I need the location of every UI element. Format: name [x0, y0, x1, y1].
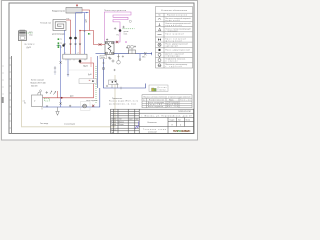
valve on left drop	[60, 102, 62, 104]
make-up connection	[54, 66, 56, 75]
svg-text:Разраб.: Разраб.	[111, 122, 117, 124]
svg-text:Насосы системы отопления и гор: Насосы системы отопления и горячего водо…	[144, 96, 191, 98]
sensor note icon	[152, 88, 154, 91]
title block	[111, 109, 194, 133]
cold water main (navy)	[114, 53, 152, 55]
boiler return (blue)	[67, 59, 69, 77]
svg-text:Т2: Т2	[60, 43, 62, 45]
svg-text:датчик температуры: датчик температуры	[52, 33, 66, 35]
svg-text:Н.контр.: Н.контр.	[111, 129, 117, 131]
legend row 4	[158, 34, 162, 36]
svg-text:Провер.: Провер.	[111, 124, 117, 126]
boiler supply (red)	[43, 59, 94, 98]
cold water riser (navy)	[97, 56, 99, 88]
riser: coil supply (red)	[66, 20, 71, 54]
drain valve	[56, 107, 59, 115]
pump schedule table	[142, 95, 192, 108]
riser tick marks	[84, 30, 86, 32]
pink stub	[90, 57, 92, 67]
node on boiler supply	[61, 97, 63, 99]
boiler control link (green dashed)	[45, 98, 50, 101]
riser: radiators return (blue)	[75, 13, 77, 55]
svg-text:340 кВт: 340 кВт	[31, 86, 38, 88]
gas meter box	[19, 30, 27, 41]
legend row 9	[158, 59, 161, 62]
svg-text:Ду40: Ду40	[88, 74, 92, 76]
tank volume label box	[100, 55, 107, 59]
legend row 5	[158, 38, 161, 41]
svg-text:Марка: Марка	[169, 99, 174, 101]
navy stub	[104, 56, 146, 88]
svg-text:3Ду50: 3Ду50	[83, 65, 88, 67]
safety arrows	[54, 92, 56, 95]
legend row 3	[159, 28, 161, 31]
svg-text:Ду25: Ду25	[27, 47, 31, 49]
svg-text:Ду40: Ду40	[85, 19, 87, 23]
svg-text:Насос ГВС: Насос ГВС	[148, 104, 163, 106]
manifold drain stubs	[66, 59, 85, 60]
svg-text:темп.: темп.	[29, 35, 34, 37]
pink fittings	[92, 105, 94, 107]
distribution manifold	[63, 54, 87, 59]
legend table	[156, 7, 193, 69]
instrument stems on cold main	[127, 46, 133, 54]
svg-text:Насос подпитки: Насос подпитки	[148, 106, 163, 108]
drawing frame	[9, 3, 194, 134]
pink drain dot	[125, 41, 127, 43]
sensor link from meter	[26, 32, 32, 34]
sheet background	[0, 0, 200, 141]
green sensor marks	[58, 38, 60, 48]
towel sensor (green dashed)	[123, 28, 135, 30]
DHW tank	[105, 42, 114, 55]
air collector	[66, 8, 82, 14]
svg-text:Узел ввода: Узел ввода	[40, 123, 48, 125]
svg-text:Датчик: Датчик	[158, 87, 167, 89]
supply pipe from collector (red)	[82, 10, 90, 31]
svg-text:Т: Т	[90, 34, 91, 36]
valve on tank feed	[99, 43, 102, 45]
svg-text:насос подпитки: насос подпитки	[86, 100, 98, 102]
return pipe at collector (blue)	[76, 12, 89, 14]
air vent stub	[76, 5, 78, 8]
svg-text:Лист: Лист	[119, 119, 122, 121]
svg-text:П-281025-ПМ: П-281025-ПМ	[178, 111, 191, 113]
svg-text:в канализацию: в канализацию	[64, 123, 76, 125]
svg-text:Манометр показывающ.: Манометр показывающ.	[166, 64, 189, 66]
sensor line (green dashed)	[95, 66, 97, 103]
svg-text:Насосы марки WILO, № по: Насосы марки WILO, № по	[109, 100, 138, 103]
svg-text:датчик: датчик	[124, 31, 129, 33]
fittings below cold main	[117, 54, 124, 64]
fittings near tank bottom	[109, 57, 115, 63]
svg-text:Воздухосборник: Воздухосборник	[52, 10, 65, 12]
towel valves	[114, 26, 125, 30]
tank feed (red)	[90, 31, 106, 45]
svg-text:TOP-S 40/10: TOP-S 40/10	[167, 102, 178, 104]
svg-text:в оправе: в оправе	[166, 61, 178, 63]
left margin ticks	[9, 58, 12, 128]
riser: coil return (blue)	[64, 30, 66, 54]
riser: supply branch (red)	[80, 31, 90, 55]
gas boiler	[32, 95, 43, 107]
svg-text:г. Москва, ул. Первомайская, д: г. Москва, ул. Первомайская, дом 19	[142, 114, 192, 117]
towel rail circuit (magenta)	[104, 12, 131, 42]
svg-text:расположению, см. план: расположению, см. план	[109, 103, 136, 105]
svg-text:датч.: датч.	[29, 31, 33, 33]
instrument on circulation line	[102, 67, 104, 69]
bottom return main (blue)	[43, 88, 100, 107]
svg-text:газ: газ	[23, 101, 25, 103]
paper edge	[2, 1, 198, 141]
svg-text:Стадия: Стадия	[170, 120, 175, 122]
svg-text:Подп: Подп	[135, 119, 138, 121]
sensor tick near riser	[88, 33, 90, 35]
legend row 6	[158, 43, 161, 46]
equipment strip box	[79, 79, 97, 84]
cold main end tick	[151, 52, 153, 55]
floor heating coil	[53, 20, 66, 31]
safety group	[46, 91, 52, 94]
svg-text:Наименование: Наименование	[167, 15, 187, 17]
legend row 2	[159, 23, 161, 25]
flue with siphon	[38, 92, 41, 95]
small fitting	[108, 56, 110, 58]
paper edge box	[1, 97, 3, 103]
riser: second return (blue)	[84, 13, 86, 55]
paper edge ladder	[1, 66, 4, 94]
boiler drain stub	[41, 107, 43, 110]
svg-text:Иванов: Иванов	[119, 122, 124, 124]
svg-text:Modulex EXT 440: Modulex EXT 440	[31, 83, 46, 85]
signature	[136, 121, 140, 129]
svg-text:Примечание:: Примечание:	[112, 98, 123, 100]
svg-text:Ду50: Ду50	[70, 95, 74, 97]
node junction	[79, 30, 81, 32]
fittings on cold main	[126, 46, 146, 56]
make-up pump	[81, 102, 91, 111]
svg-text:Тёплый пол: Тёплый пол	[40, 21, 51, 24]
faint link line	[69, 69, 90, 71]
pump P1	[69, 37, 72, 40]
flow arrow	[86, 12, 88, 13]
svg-text:№: №	[159, 14, 161, 17]
svg-text:Полотенцесушители: Полотенцесушители	[104, 10, 126, 12]
svg-text:с приводом: с приводом	[166, 30, 178, 32]
svg-text:Лист: Лист	[178, 120, 181, 122]
svg-text:Насос отопления: Насос отопления	[148, 102, 164, 104]
svg-text:ТЕПЛОСЕРВИС: ТЕПЛОСЕРВИС	[173, 129, 191, 133]
pump P2	[74, 37, 77, 40]
towel air vent	[129, 20, 131, 22]
pump on inlet	[62, 44, 64, 46]
tank inlet valve	[106, 39, 108, 41]
legend row 1	[158, 18, 161, 19]
water meter	[129, 50, 136, 54]
fittings on circulation line	[106, 83, 121, 89]
svg-text:№док: №док	[129, 119, 133, 121]
svg-text:Условные обозначения: Условные обозначения	[161, 10, 187, 12]
svg-text:Изм: Изм	[111, 119, 114, 121]
svg-text:4: 4	[180, 124, 181, 126]
legend row 8	[158, 53, 161, 56]
safety riser (red)	[57, 91, 59, 98]
svg-text:Котёл газовый: Котёл газовый	[31, 79, 44, 82]
svg-text:Т3: Т3	[60, 47, 62, 49]
DHW out (navy)	[96, 53, 106, 55]
svg-text:котельной: котельной	[148, 130, 157, 133]
towel pump	[119, 29, 122, 32]
svg-text:Котельная: Котельная	[148, 122, 157, 124]
manifold left inlet (blue)	[57, 46, 61, 108]
svg-text:темпер.: темпер.	[158, 89, 168, 91]
svg-text:1000л: 1000л	[101, 57, 106, 59]
svg-text:температуры: температуры	[166, 56, 181, 58]
svg-text:MHI 204: MHI 204	[167, 106, 178, 108]
legend row 10	[158, 64, 161, 67]
svg-text:Листов: Листов	[186, 120, 191, 122]
pump P3	[79, 60, 82, 63]
svg-text:Кол-во: Кол-во	[181, 99, 191, 101]
svg-text:Кгс: Кгс	[24, 102, 26, 104]
svg-text:Наименование: Наименование	[149, 99, 164, 101]
svg-text:Термометр показыв.: Термометр показыв.	[166, 59, 187, 61]
green tick	[58, 45, 60, 47]
lower fittings	[114, 69, 116, 71]
valve on left drop (upper)	[60, 61, 62, 63]
svg-text:темп.: темп.	[124, 33, 129, 35]
svg-text:Кол: Кол	[114, 119, 116, 121]
svg-text:Петров: Петров	[119, 124, 124, 126]
svg-text:95 °С/70 °С: 95 °С/70 °С	[25, 44, 36, 46]
room boundary (pale)	[22, 41, 116, 127]
air vent red tip	[76, 5, 78, 6]
left margin column	[11, 56, 13, 134]
svg-text:Т1: Т1	[60, 39, 62, 41]
cold water drop	[139, 54, 141, 59]
control unit box	[109, 80, 117, 85]
legend row 7	[159, 49, 161, 51]
sensor note box	[149, 85, 168, 92]
riser valves	[64, 43, 81, 45]
